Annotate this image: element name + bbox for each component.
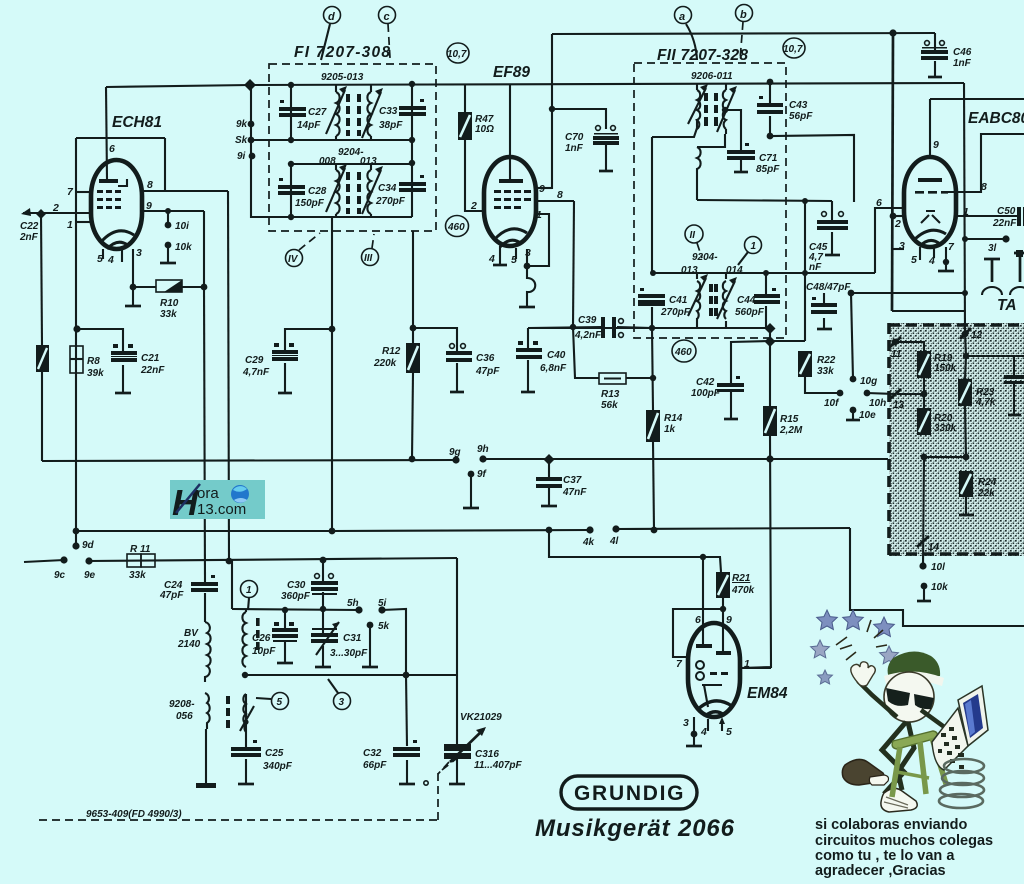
- svg-text:C42: C42: [696, 377, 715, 388]
- svg-text:1: 1: [536, 209, 542, 221]
- ground: C29: [278, 392, 292, 395]
- svg-text:11...407pF: 11...407pF: [474, 760, 523, 771]
- svg-text:a: a: [679, 11, 685, 23]
- wire: FI lower coupling x412 y140-163: [411, 140, 413, 163]
- wire: C44 column: [765, 273, 767, 294]
- svg-text:si colaboras enviando: si colaboras enviando: [815, 817, 967, 833]
- node: 4k dot: [586, 526, 593, 533]
- svg-text:C48/47pF: C48/47pF: [806, 282, 851, 293]
- svg-text:10i: 10i: [175, 221, 189, 232]
- capacitor C41 270pF: [638, 288, 665, 306]
- inductor ratio det coil I (014): [714, 277, 737, 319]
- wire: terminal 12 drop inside block: [965, 333, 966, 356]
- wire: R23 column: [965, 356, 966, 379]
- wire: R14 bottom to AF takeoff bus: [653, 442, 654, 530]
- wire: 5i to C32 column: [382, 609, 406, 675]
- wire: EF89 pin8 column x573: [573, 201, 574, 327]
- resistor left input (C22 branch): [36, 345, 49, 372]
- svg-text:3: 3: [683, 717, 689, 729]
- svg-text:FII 7207-328: FII 7207-328: [657, 47, 748, 64]
- svg-text:10l: 10l: [931, 562, 945, 573]
- ground: 9f: [463, 507, 479, 510]
- watermark globe icon: [231, 485, 249, 503]
- svg-text:13: 13: [893, 400, 905, 411]
- svg-text:R 11: R 11: [130, 544, 151, 555]
- node: 4l dot: [612, 525, 619, 532]
- wire: AVC bus y461 left section to 9g: [42, 460, 456, 461]
- svg-text:EABC80: EABC80: [968, 110, 1024, 127]
- ground: EF89 cathode: [519, 306, 535, 309]
- wire: osc coil top curl to row: [245, 609, 247, 612]
- ground: C42: [724, 418, 738, 421]
- cartoon keyboard keys: [938, 727, 964, 769]
- node: terminal 12 blob: [962, 331, 969, 338]
- wire: left column resistor bottom to bus: [41, 372, 43, 461]
- node: junction C33 bottom: [409, 137, 415, 143]
- ground: C71 stub bar: [734, 171, 748, 174]
- svg-text:22k: 22k: [977, 488, 995, 499]
- node: open circle near C316: [424, 781, 428, 785]
- svg-text:013: 013: [681, 265, 698, 276]
- wire: discriminator out to AF block terminal 12: [892, 310, 964, 312]
- node: diamond junction x770 y328: [765, 323, 776, 334]
- svg-text:9: 9: [146, 200, 152, 212]
- cartoon star 3: [874, 617, 895, 636]
- svg-text:C39: C39: [578, 315, 597, 326]
- svg-text:circuitos muchos colegas: circuitos muchos colegas: [815, 833, 993, 849]
- wire: cathode rail y457: [924, 456, 966, 458]
- wire: EABC80 pin7 ground stub: [945, 247, 947, 262]
- svg-text:R13: R13: [601, 389, 620, 400]
- svg-text:470k: 470k: [731, 585, 755, 596]
- wire: 10k ground stub: [167, 245, 169, 262]
- svg-text:14: 14: [928, 542, 940, 553]
- winding marker II circle: [685, 225, 703, 243]
- svg-text:008: 008: [319, 156, 336, 167]
- tube ECH81 grid dashes: [97, 190, 121, 209]
- node: junction C32 top: [403, 672, 410, 679]
- svg-text:R21: R21: [732, 573, 751, 584]
- svg-text:b: b: [740, 9, 747, 21]
- inductor oscillator coil 5 (9208-056): [226, 694, 254, 732]
- wire: R15 bottom through buses to EM84 pin1: [740, 436, 771, 668]
- svg-text:C22: C22: [20, 221, 39, 232]
- wire: C71 bottom stub: [740, 160, 742, 171]
- resistor R19 150k: [917, 351, 931, 378]
- winding marker III circle: [362, 249, 379, 266]
- svg-text:nF: nF: [809, 262, 822, 273]
- svg-text:EM84: EM84: [747, 685, 788, 702]
- svg-text:R15: R15: [780, 414, 799, 425]
- ground: C40: [521, 391, 535, 394]
- resistor R22 33k: [798, 351, 812, 377]
- ground: C70 stub bar: [599, 170, 613, 173]
- wire: C37 bottom ground lead: [548, 488, 550, 505]
- svg-text:C43: C43: [789, 100, 808, 111]
- node: junction R15 line on AVC bus: [766, 455, 773, 462]
- capacitor block AF cap at right edge: [1004, 356, 1024, 415]
- svg-text:9: 9: [539, 183, 545, 195]
- svg-text:33k: 33k: [817, 366, 834, 377]
- node: junction C27 top: [288, 82, 294, 88]
- wire: top HT bus y34 EF89 to C46: [552, 33, 935, 34]
- inductor oscillator coil 1 (antenna winding): [242, 612, 259, 667]
- svg-text:C41: C41: [669, 295, 688, 306]
- node: 10i dot: [165, 222, 172, 229]
- frequency oval 460 left: [446, 216, 469, 237]
- capacitor C39 4,2nF series: [601, 317, 623, 338]
- svg-text:9d: 9d: [82, 540, 95, 551]
- capacitor C31 3..30pF variable: [311, 622, 339, 655]
- tube ECH81 plate electrode: [99, 179, 118, 183]
- svg-text:9205-013: 9205-013: [321, 72, 364, 83]
- svg-text:38pF: 38pF: [379, 120, 403, 131]
- inductor FII tertiary winding: [697, 147, 701, 173]
- ground: C36: [450, 391, 464, 394]
- svg-text:4,7nF: 4,7nF: [242, 367, 270, 378]
- node: junction C34 top: [409, 160, 415, 166]
- node: junction EABC80 pin2: [890, 213, 897, 220]
- wire: 3l stub: [965, 238, 1005, 240]
- cartoon laptop keyboard: [932, 708, 968, 770]
- tube ECH81 cathode arcs: [101, 231, 134, 249]
- svg-text:C25: C25: [265, 748, 284, 759]
- node: 10k dot: [165, 242, 172, 249]
- svg-text:ECH81: ECH81: [112, 114, 162, 131]
- node: junction R10 right: [201, 284, 208, 291]
- wire: AGC line y328 C40 to FII: [528, 327, 770, 329]
- wire: C34 column: [411, 163, 413, 217]
- svg-text:9: 9: [726, 614, 732, 626]
- capacitor C46 1nF: [921, 41, 948, 60]
- svg-text:III: III: [364, 253, 373, 264]
- svg-text:47nF: 47nF: [562, 487, 587, 498]
- svg-text:560pF: 560pF: [735, 307, 765, 318]
- terminal circle c: [379, 7, 396, 24]
- svg-text:47pF: 47pF: [159, 590, 184, 601]
- wire: C48 bottom ground lead: [823, 318, 825, 328]
- wire: C36 bottom ground lead: [456, 363, 458, 391]
- svg-text:c: c: [384, 11, 390, 23]
- svg-text:11: 11: [891, 349, 902, 360]
- node: 10e dot: [850, 407, 857, 414]
- svg-text:d: d: [328, 11, 335, 23]
- wire: C30 column: [322, 560, 324, 581]
- wire: FI lower rail y217: [251, 216, 412, 218]
- resistor R21 470k: [716, 572, 730, 598]
- leader III: [372, 234, 374, 248]
- connector arrow terminal 13: [890, 389, 901, 399]
- ground: 10e: [846, 419, 860, 422]
- wire: left column x42 C22 junction down to AVC bus: [41, 214, 42, 345]
- capacitor C21 22nF: [111, 344, 137, 362]
- svg-text:4,7k: 4,7k: [975, 397, 996, 408]
- tube ECH81 envelope: [91, 160, 142, 249]
- wire: R10 row y287: [133, 286, 156, 288]
- tube EF89 envelope: [484, 157, 536, 246]
- svg-text:R14: R14: [664, 413, 683, 424]
- svg-text:4,2nF: 4,2nF: [574, 330, 602, 341]
- winding marker IV circle: [286, 250, 303, 267]
- cartoon stool legs: [892, 738, 946, 797]
- svg-text:1k: 1k: [664, 424, 676, 435]
- node: junction pin4/7: [943, 259, 949, 265]
- wire: C43 column top: [769, 82, 771, 103]
- frequency oval 10,7 right: [783, 38, 805, 58]
- wire: EABC80 pin2 stub: [893, 215, 904, 217]
- svg-text:4: 4: [928, 255, 935, 267]
- svg-text:330k: 330k: [934, 423, 957, 434]
- capacitor C24 47pF: [191, 575, 218, 592]
- inductor FII primary 9206-011: [688, 83, 708, 129]
- svg-text:1: 1: [751, 241, 757, 252]
- svg-text:R8: R8: [87, 356, 100, 367]
- svg-text:5k: 5k: [378, 621, 390, 632]
- resistor R10 33k: [156, 280, 182, 292]
- svg-text:10g: 10g: [860, 376, 877, 387]
- svg-text:85pF: 85pF: [756, 164, 780, 175]
- svg-text:056: 056: [176, 711, 193, 722]
- wire: FI upper rail y140: [251, 139, 412, 141]
- svg-text:Sk: Sk: [235, 135, 248, 146]
- svg-text:C70: C70: [565, 132, 584, 143]
- wire: pin9 vertical: [929, 99, 931, 157]
- wire: C46 drop from top bus: [934, 33, 936, 50]
- wire: R13 to x653: [626, 377, 653, 379]
- ground: C46 stub bar: [928, 76, 942, 79]
- cartoon star 4: [811, 640, 830, 658]
- frequency oval 460 mid: [672, 340, 696, 362]
- tube EF89 pin5 tick: [515, 248, 517, 259]
- inductor BV 2140 choke: [205, 622, 211, 729]
- svg-text:R10: R10: [160, 298, 179, 309]
- inductor FI secondary with core: [357, 85, 383, 140]
- resistor R8 39k: [70, 346, 83, 373]
- node: junction osc coil bottom: [242, 672, 248, 678]
- cartoon body legs: [882, 722, 914, 794]
- cartoon spring: [939, 759, 984, 808]
- wire: R22 column x805: [804, 202, 806, 341]
- node: 5h dot: [355, 606, 362, 613]
- leader 3: [328, 679, 338, 693]
- svg-text:3: 3: [136, 247, 142, 259]
- wire: main HT bus y85 from ECH81 top across to right side: [106, 83, 964, 87]
- wire: ECH81 pin8 horizontal: [143, 190, 228, 192]
- capacitor C43 56pF: [757, 96, 783, 114]
- node: junction 3l tap: [962, 236, 968, 242]
- svg-text:460: 460: [447, 222, 465, 233]
- wire: osc coil feedback row y675: [245, 674, 457, 676]
- node: diamond junction C37 on AVC bus: [544, 454, 555, 465]
- node: junction 10i tap: [165, 208, 171, 214]
- wire: ECH81 pin9 horizontal: [142, 210, 204, 212]
- wire: C32 bottom ground lead: [406, 760, 408, 783]
- node: junction C43 bottom: [767, 133, 774, 140]
- svg-text:C33: C33: [379, 106, 398, 117]
- wire: EM84 pin9 electrode lead: [722, 623, 724, 651]
- node: 9c dot: [60, 556, 67, 563]
- node: junction R24 top: [963, 454, 970, 461]
- wire: C25 bottom ground lead: [245, 759, 247, 783]
- svg-text:C37: C37: [563, 475, 582, 486]
- wire: 9k/Sk/9i vertical x251 down to FI lower rail: [251, 85, 291, 217]
- node: junction C21/R8: [73, 325, 80, 332]
- node: junction tertiary rail at R22 top: [802, 198, 808, 204]
- wire: osc coil bottom to C25: [245, 694, 247, 747]
- svg-text:ora: ora: [197, 485, 219, 502]
- cartoon sneaker stripes: [884, 797, 908, 808]
- wire: EM84 pin6 vertical: [702, 557, 704, 645]
- ground: 10k lower: [917, 600, 931, 603]
- svg-text:6: 6: [876, 197, 882, 209]
- tube EF89 plate electrode: [499, 179, 523, 183]
- svg-text:C36: C36: [476, 353, 495, 364]
- ground: ECH81 cathode: [125, 305, 141, 308]
- svg-text:R24: R24: [978, 477, 997, 488]
- tube EM84 screen arcs: [697, 701, 732, 716]
- svg-text:9c: 9c: [54, 570, 66, 581]
- wire: FII secondary bottom to tertiary coil: [697, 134, 725, 147]
- svg-text:2nF: 2nF: [19, 232, 39, 243]
- wire: C40 drop at x528: [527, 328, 529, 348]
- wire: AF bus y530 right of switch gap: [616, 528, 850, 529]
- wire: osc left column x232: [231, 560, 233, 609]
- svg-text:C28: C28: [308, 186, 327, 197]
- node: junction x76 on AF bus top: [73, 528, 80, 535]
- svg-text:56pF: 56pF: [789, 111, 813, 122]
- frequency oval 10,7 top: [447, 43, 469, 63]
- wire: C48 horizontal y293: [851, 292, 965, 294]
- ground: C21: [115, 392, 131, 395]
- wire: ECH81 pin1 stub: [76, 221, 90, 223]
- cartoon sparkle rays: [836, 620, 887, 660]
- wire: C27 column: [290, 85, 292, 140]
- svg-text:3: 3: [525, 247, 531, 259]
- node: 10f dot: [837, 390, 844, 397]
- wire: 5k ground stub: [369, 625, 371, 666]
- svg-text:C30: C30: [287, 580, 306, 591]
- wire: EF89 pin8 stub: [536, 200, 574, 202]
- svg-text:3: 3: [339, 697, 345, 708]
- resistor R13 56k: [599, 373, 626, 384]
- cartoon laptop screen glare: [965, 700, 975, 736]
- svg-text:R12: R12: [382, 346, 401, 357]
- svg-text:10h: 10h: [869, 398, 886, 409]
- halftone AF amplifier block background: [889, 323, 1024, 556]
- svg-text:IV: IV: [288, 254, 299, 265]
- node: 9i dot: [249, 153, 256, 160]
- svg-text:4k: 4k: [582, 537, 595, 548]
- svg-text:10f: 10f: [824, 398, 840, 409]
- wire: R19-R20 junction to terminal 13: [897, 393, 924, 395]
- cartoon glove right: [945, 727, 964, 744]
- node: junction C26 top: [282, 607, 288, 613]
- wire: EF89 screen vertical x552: [536, 34, 552, 188]
- node: junction x229 pin8 ECH81 column end: [226, 558, 233, 565]
- svg-text:C316: C316: [475, 749, 499, 760]
- wire: coil I column bottom: [725, 321, 727, 328]
- svg-text:9208-: 9208-: [169, 699, 195, 710]
- svg-text:2: 2: [470, 200, 477, 212]
- svg-text:10k: 10k: [175, 242, 192, 253]
- wire: EF89 pin3 drop: [526, 249, 528, 266]
- cartoon laptop screen panel: [963, 694, 983, 738]
- winding marker 1 circle oscillator: [241, 581, 258, 598]
- terminal circle b: [736, 5, 753, 22]
- wire: grid feed y356 to right edge: [966, 355, 1024, 357]
- wire: coil II column bottom: [696, 318, 698, 328]
- node: junction pin9/pin7 loop: [720, 606, 726, 612]
- svg-text:3...30pF: 3...30pF: [330, 648, 368, 659]
- tube EABC80 envelope: [904, 157, 956, 247]
- tube EABC80 cathode arcs: [914, 230, 946, 246]
- node: junction x652: [649, 325, 655, 331]
- cartoon head: [884, 672, 934, 722]
- wire: cathode ground stub: [132, 287, 134, 305]
- svg-text:5i: 5i: [378, 598, 387, 609]
- wire: C44 bottom lead: [765, 306, 767, 328]
- node: junction R19/R20: [921, 391, 928, 398]
- svg-text:4: 4: [700, 726, 707, 738]
- wire: C29 bottom ground lead: [284, 363, 286, 392]
- wire: osc grid row y609: [232, 609, 359, 610]
- ground: BV coil blob: [196, 783, 216, 788]
- cartoon star small: [818, 670, 833, 684]
- inductor FI secondary lower (013): [357, 164, 383, 217]
- wire: trimmer C316 bottom ground lead: [456, 758, 458, 783]
- node: junction C70 tap: [549, 106, 555, 112]
- svg-text:33k: 33k: [160, 309, 177, 320]
- capacitor C28 150pF: [278, 178, 305, 195]
- watermark Hora13.com box: [170, 480, 265, 519]
- leader d to FI box: [321, 24, 330, 60]
- tube EM84 envelope: [688, 623, 740, 717]
- wire: R47 bottom to EF89 pin2: [465, 140, 484, 211]
- node: 5i dot: [378, 606, 385, 613]
- cartoon santa hat: [888, 651, 940, 680]
- logo GRUNDIG badge: [561, 776, 697, 809]
- capacitor C48 47pF: [811, 297, 837, 314]
- wire: R23 bottom to R24 top rail: [965, 406, 966, 457]
- wire: C37 top lead: [548, 459, 550, 477]
- leader b to FII box: [740, 22, 743, 60]
- wire: y341 right to R22 top: [770, 340, 805, 342]
- wire: x653 column C41 bottom to R14 top: [652, 328, 653, 410]
- wire: C48 cap top lead: [823, 293, 825, 303]
- wire: ECH81 pin7 stub: [76, 191, 90, 193]
- tube EM84 pin5 tick with arrow: [721, 719, 723, 731]
- wire: oscillator box right side x457: [456, 558, 458, 745]
- svg-text:56k: 56k: [601, 400, 618, 411]
- wire: EF89 plate column from bus: [509, 85, 511, 183]
- capacitor C26 10pF: [272, 622, 298, 642]
- resistor R15 2,2M: [763, 406, 777, 436]
- wire: pin5 tick: [919, 247, 921, 260]
- tube ECH81 pin5 tick: [102, 249, 104, 259]
- node: diamond junction bus/9k line: [244, 79, 256, 91]
- wire: 9d stub from AF bus: [75, 531, 77, 546]
- ground: C32: [399, 783, 415, 786]
- node: junction secondary tap: [722, 107, 728, 113]
- wire: R24 bottom ground lead: [965, 497, 967, 514]
- svg-text:BV: BV: [184, 628, 199, 639]
- svg-text:9: 9: [933, 139, 939, 151]
- node: junction R14 bottom on AF bus: [651, 527, 658, 534]
- wire: C46 bottom lead: [934, 61, 936, 76]
- svg-text:C26: C26: [252, 633, 271, 644]
- svg-text:9k: 9k: [236, 119, 248, 130]
- svg-text:100pF: 100pF: [691, 388, 721, 399]
